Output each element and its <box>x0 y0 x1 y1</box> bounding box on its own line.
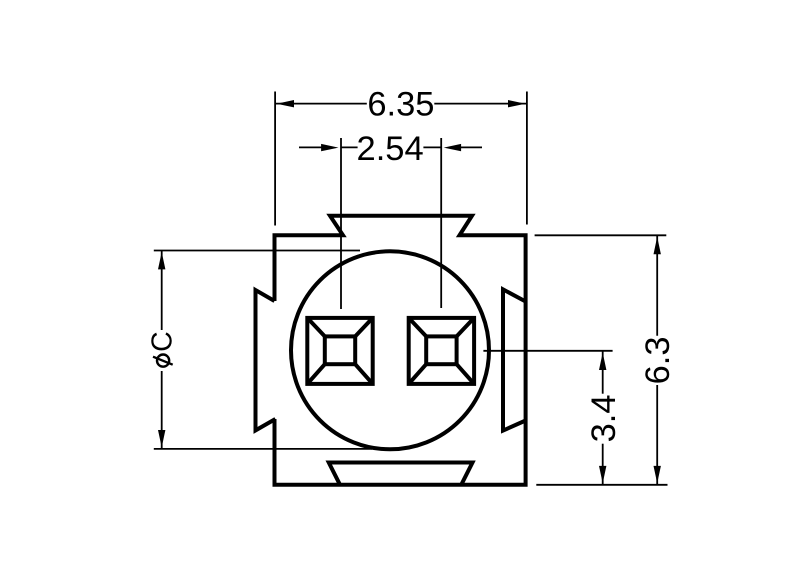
lens circle <box>291 251 489 449</box>
svg-text:C: C <box>147 331 179 352</box>
dim phiC line upper segment <box>161 251 163 331</box>
dim 6.35 left extension line <box>274 92 276 226</box>
right pad inner square <box>426 336 456 364</box>
dim 6.35 line left segment <box>275 103 367 105</box>
dim 6.3 line upper segment <box>656 235 658 335</box>
svg-text:3.4: 3.4 <box>585 394 623 442</box>
right pad corner bevels <box>409 318 474 384</box>
dim 2.54 line right stub <box>423 146 441 148</box>
dim phiC top arrow <box>158 252 165 269</box>
left mold tab <box>256 290 276 430</box>
dim 2.54 right outside arrow <box>458 146 482 148</box>
dim 6.35 right arrow <box>508 100 525 107</box>
dim phiC label diameter symbol circle <box>157 355 169 367</box>
left pad corner bevels <box>307 318 372 384</box>
dim 6.3 top arrow <box>654 237 661 254</box>
svg-text:6.3: 6.3 <box>639 336 677 384</box>
dim 3.4 label <box>585 394 623 442</box>
svg-text:2.54: 2.54 <box>357 130 424 168</box>
dim 2.54 line left stub <box>341 146 358 148</box>
dim phiC bottom arrow <box>158 430 165 447</box>
bottom trapezoid mark <box>329 463 473 485</box>
dim phiC label letter C <box>147 331 179 352</box>
dim phiC top extension line <box>154 250 360 252</box>
dim 2.54 left extension line <box>340 138 342 309</box>
dim 3.4 line upper segment <box>602 351 604 394</box>
dim phiC bottom extension line <box>154 448 372 450</box>
dim phiC label diameter symbol slash <box>153 357 173 365</box>
left pad inner square <box>325 336 355 364</box>
dim 6.3 bottom arrow <box>654 466 661 483</box>
package body outline <box>275 216 526 485</box>
left pad outer square <box>307 318 372 384</box>
right pad outer square <box>409 318 474 384</box>
dim 6.3 label <box>639 336 677 384</box>
dim 2.54 left outside arrow <box>299 146 326 148</box>
right inner mold mark <box>503 289 526 430</box>
dim 2.54 right extension line <box>440 138 442 308</box>
bottom extension line shared by 3.4 and 6.3 <box>536 484 667 486</box>
dim 6.3 top extension line <box>535 234 667 236</box>
dim 3.4 top arrow <box>599 353 606 370</box>
dim 6.35 line right segment <box>434 103 527 105</box>
dim 3.4 bottom arrow <box>599 466 606 483</box>
dim 6.3 line lower segment <box>656 385 658 485</box>
dim 6.35 left arrow <box>277 100 294 107</box>
dim phiC line lower segment <box>161 371 163 449</box>
svg-text:6.35: 6.35 <box>367 86 434 124</box>
dim 6.35 right extension line <box>526 92 528 225</box>
dim 3.4 line lower segment <box>602 444 604 485</box>
dim 3.4 top extension line <box>483 350 612 352</box>
